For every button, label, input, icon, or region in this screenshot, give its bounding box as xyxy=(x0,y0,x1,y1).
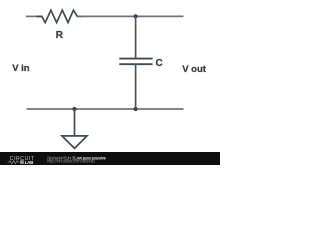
svg-text:C: C xyxy=(156,58,163,69)
capacitor C xyxy=(119,59,152,65)
footer bar with CircuitLab branding xyxy=(0,152,220,165)
wire bottom (ground rail) xyxy=(27,108,184,110)
wire top-left (V in to resistor R) xyxy=(26,15,42,17)
ground xyxy=(62,109,87,148)
label V out xyxy=(182,65,206,75)
wire capacitor bottom stem xyxy=(135,65,137,109)
logo box xyxy=(20,160,24,164)
node junction bottom (capacitor to rail) xyxy=(134,107,138,111)
svg-text:LAB: LAB xyxy=(25,160,34,165)
node junction top (V out node) xyxy=(134,14,138,18)
node junction ground xyxy=(72,107,76,111)
footer background bar xyxy=(0,152,220,165)
logo zigzag xyxy=(8,161,20,164)
wire capacitor top stem xyxy=(135,16,137,58)
svg-text:R: R xyxy=(56,30,64,41)
wire top-right (resistor to V out end) xyxy=(77,15,183,17)
label V in xyxy=(12,64,29,74)
svg-text:http://circuitlab.com/59e4a2: http://circuitlab.com/59e4a2 xyxy=(47,159,96,164)
resistor R xyxy=(37,10,83,22)
